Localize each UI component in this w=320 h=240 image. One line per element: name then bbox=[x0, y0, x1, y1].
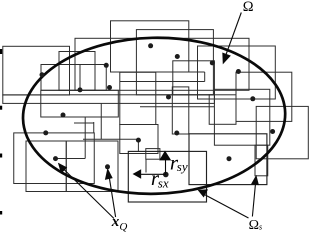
svg-text:sx: sx bbox=[158, 175, 169, 190]
svg-text:Ω: Ω bbox=[249, 218, 259, 232]
svg-text:s: s bbox=[259, 222, 262, 231]
svg-text:Q: Q bbox=[119, 221, 127, 232]
svg-text:Ω: Ω bbox=[243, 0, 254, 15]
svg-text:sy: sy bbox=[177, 159, 188, 174]
